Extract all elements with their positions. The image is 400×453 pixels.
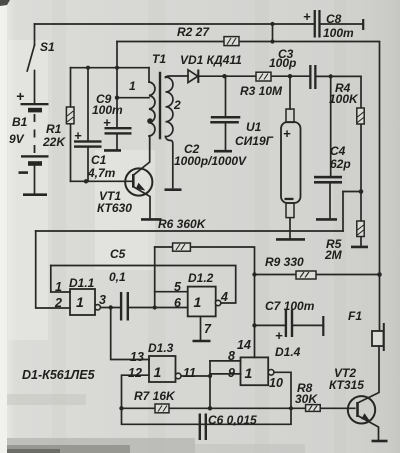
svg-text:9: 9 [228, 366, 235, 380]
svg-text:1: 1 [76, 294, 84, 310]
svg-text:1: 1 [154, 364, 162, 380]
svg-text:9V: 9V [9, 132, 25, 146]
svg-text:11: 11 [183, 366, 196, 380]
svg-text:T1: T1 [152, 52, 166, 66]
svg-text:C4: C4 [330, 144, 346, 158]
svg-text:D1.3: D1.3 [148, 341, 174, 355]
svg-text:13: 13 [130, 350, 144, 364]
svg-text:7: 7 [204, 322, 212, 336]
svg-text:0,1: 0,1 [109, 270, 126, 284]
svg-text:100m: 100m [323, 26, 354, 40]
svg-text:R2 27: R2 27 [177, 25, 210, 39]
svg-text:2M: 2M [324, 248, 343, 262]
svg-text:1: 1 [245, 365, 253, 381]
svg-text:62p: 62p [330, 157, 351, 171]
svg-text:D1.4: D1.4 [275, 345, 301, 359]
svg-text:S1: S1 [40, 40, 55, 54]
svg-text:30K: 30K [295, 392, 318, 406]
svg-text:12: 12 [128, 366, 142, 380]
svg-text:СИ19Г: СИ19Г [235, 134, 274, 148]
svg-text:2: 2 [54, 296, 62, 310]
svg-text:2: 2 [173, 98, 181, 112]
svg-text:8: 8 [228, 349, 235, 363]
svg-text:R1: R1 [46, 122, 62, 136]
svg-text:+: + [74, 128, 82, 143]
svg-text:VD1 КД411: VD1 КД411 [180, 53, 242, 67]
svg-text:D1-К561ЛЕ5: D1-К561ЛЕ5 [22, 368, 96, 382]
svg-text:R3 10M: R3 10M [240, 84, 283, 98]
svg-text:4,7m: 4,7m [87, 166, 116, 180]
svg-text:+: + [103, 115, 111, 130]
svg-text:U1: U1 [246, 120, 262, 134]
svg-text:F1: F1 [348, 309, 362, 323]
svg-text:22K: 22K [42, 135, 66, 149]
svg-text:C8: C8 [326, 12, 342, 26]
svg-text:3: 3 [99, 293, 106, 307]
svg-text:+: + [283, 126, 291, 141]
svg-text:+: + [16, 88, 24, 104]
svg-text:R7 16K: R7 16K [134, 389, 176, 403]
svg-text:10: 10 [269, 376, 283, 390]
svg-text:+: + [303, 9, 311, 24]
svg-text:C1: C1 [91, 153, 107, 167]
svg-text:100p: 100p [269, 56, 296, 70]
svg-text:1: 1 [129, 79, 136, 93]
svg-text:1: 1 [55, 280, 62, 294]
svg-text:1000p/1000V: 1000p/1000V [174, 154, 247, 168]
svg-text:C7 100m: C7 100m [265, 299, 315, 313]
svg-text:+: + [275, 328, 283, 343]
svg-text:C5: C5 [110, 247, 126, 261]
svg-text:КТ315: КТ315 [329, 378, 364, 392]
svg-text:C6 0,015: C6 0,015 [208, 413, 257, 427]
svg-text:D1.2: D1.2 [188, 271, 214, 285]
svg-text:1: 1 [194, 294, 202, 310]
svg-text:14: 14 [237, 338, 251, 352]
svg-text:D1.1: D1.1 [69, 276, 95, 290]
svg-text:5: 5 [174, 280, 182, 294]
svg-text:КТ630: КТ630 [97, 201, 132, 215]
svg-text:4: 4 [220, 290, 228, 304]
svg-text:6: 6 [174, 296, 182, 310]
svg-text:R6 360K: R6 360K [158, 217, 207, 231]
svg-text:100K: 100K [329, 92, 359, 106]
svg-text:R9 330: R9 330 [265, 255, 304, 269]
svg-text:B1: B1 [12, 115, 28, 129]
